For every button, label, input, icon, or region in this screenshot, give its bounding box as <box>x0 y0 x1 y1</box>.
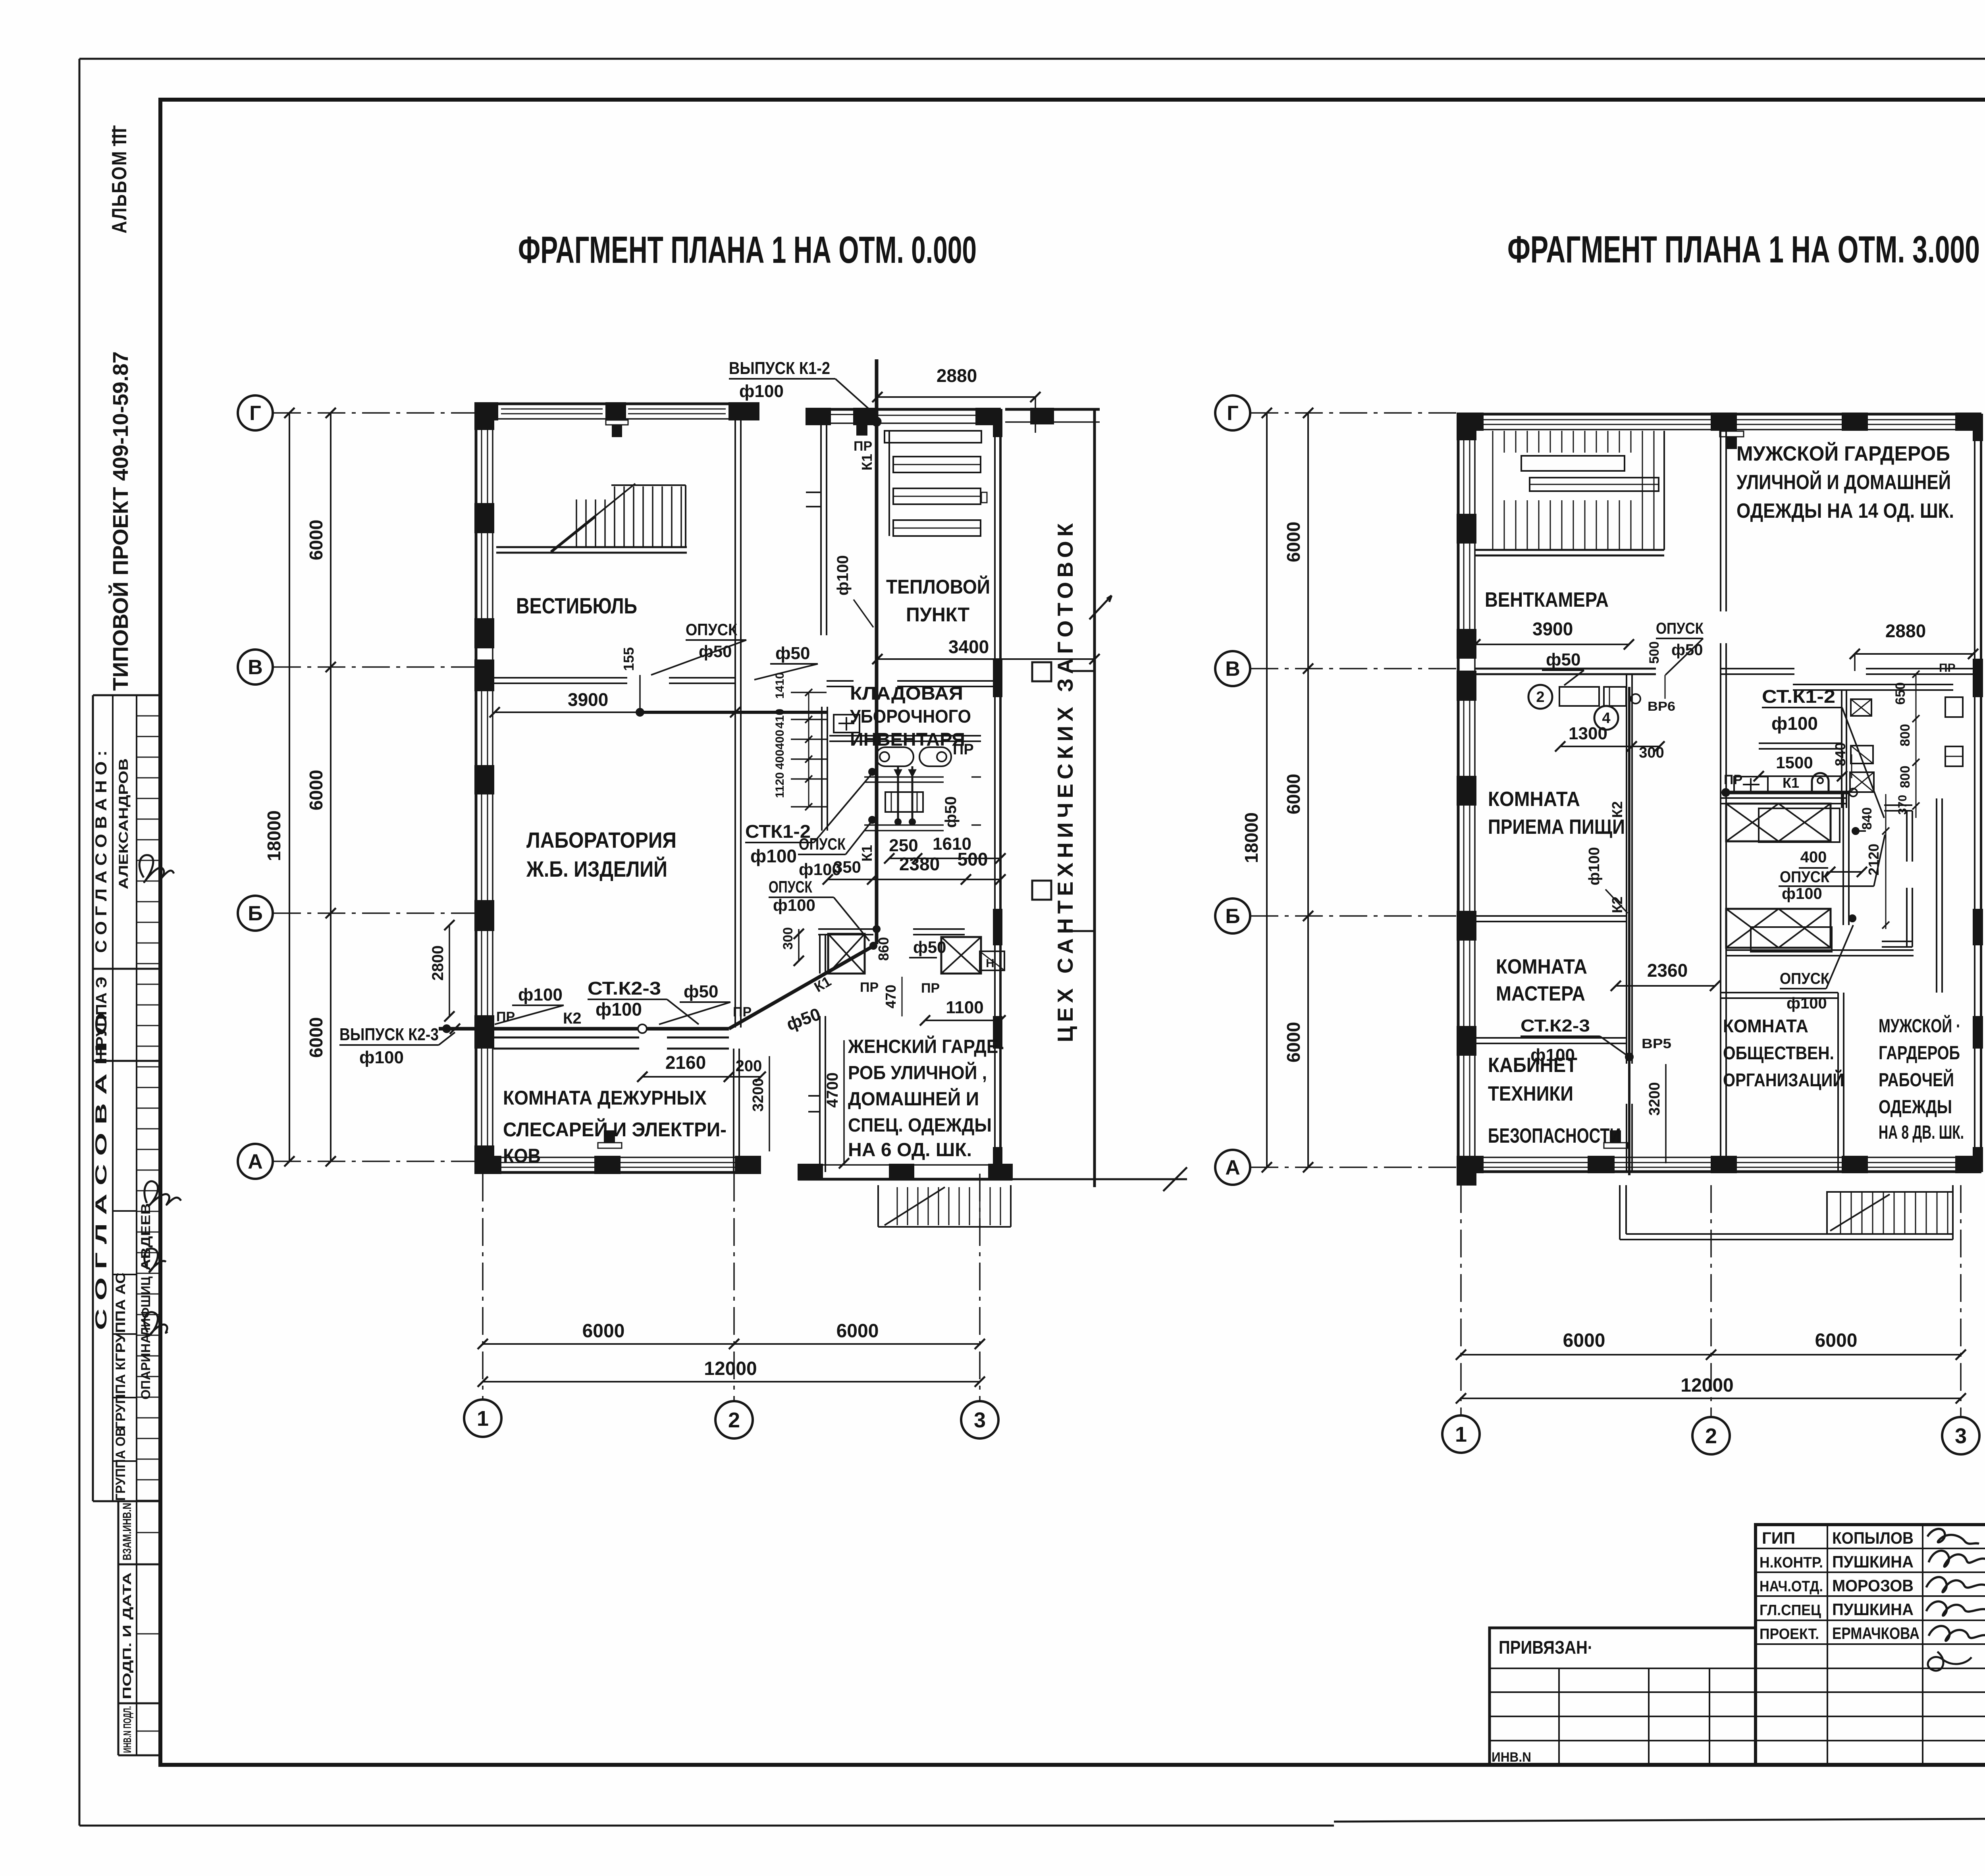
plan A dim 3400 <box>872 636 1100 664</box>
svg-text:СПЕЦ. ОДЕЖДЫ: СПЕЦ. ОДЕЖДЫ <box>848 1115 992 1136</box>
svg-text:Б: Б <box>1225 905 1240 928</box>
plan B Пр labels <box>1724 661 1956 787</box>
svg-text:ОДЕЖДЫ НА 14 ОД. ШК.: ОДЕЖДЫ НА 14 ОД. ШК. <box>1736 499 1954 523</box>
svg-text:ВЕНТКАМЕРА: ВЕНТКАМЕРА <box>1485 588 1609 611</box>
plan B dim 2880 <box>1850 621 1978 671</box>
plan B pipe К1 <box>1722 775 1866 925</box>
svg-text:2: 2 <box>728 1408 740 1432</box>
plan B wall axis В left <box>1475 669 1656 674</box>
svg-text:ПР: ПР <box>860 980 879 995</box>
title block signatures <box>1926 1529 1985 1671</box>
plan A label ф50 mid <box>659 982 730 1024</box>
svg-text:2880: 2880 <box>1885 621 1926 641</box>
plan A label СтК1-2 <box>745 769 875 866</box>
plan A bottom dim 12000 <box>478 1358 985 1387</box>
plan B label опуск ф100 a <box>1779 835 1885 902</box>
svg-text:ПР: ПР <box>953 741 974 758</box>
plan A Выпуск К2-3 label <box>339 1024 460 1067</box>
svg-text:ПР: ПР <box>1939 661 1956 675</box>
svg-text:СЛЕСАРЕЙ И ЭЛЕКТРИ-: СЛЕСАРЕЙ И ЭЛЕКТРИ- <box>503 1118 727 1141</box>
plan B axis circles Г В Б А <box>1215 395 1457 1185</box>
svg-text:С О Г Л А С О В А Н О :: С О Г Л А С О В А Н О : <box>93 750 110 953</box>
sidebar signature 1 <box>139 855 174 882</box>
plan B dim 3200 <box>1646 1064 1666 1163</box>
plan A dim 2800 <box>429 920 455 1022</box>
svg-text:2120: 2120 <box>1866 844 1882 875</box>
plan A dim 2160 200 <box>637 1052 766 1082</box>
plan B bottom dim 12000 <box>1456 1375 1966 1404</box>
plan A wall Комната дежурных top <box>493 1037 729 1049</box>
svg-text:ф100: ф100 <box>1586 847 1603 885</box>
plan A bottom axis circles 1 2 3 <box>464 1174 998 1438</box>
svg-text:КОМНАТА ДЕЖУРНЫХ: КОМНАТА ДЕЖУРНЫХ <box>503 1087 707 1109</box>
svg-text:3900: 3900 <box>568 689 608 710</box>
svg-text:6000: 6000 <box>582 1321 625 1342</box>
plan B room label Кабинет техники <box>1488 1054 1621 1147</box>
svg-text:ф100: ф100 <box>1782 885 1822 902</box>
svg-text:ИНВЕНТАРЯ: ИНВЕНТАРЯ <box>850 729 965 750</box>
svg-text:В: В <box>1225 657 1240 681</box>
plan A bottom wall right part <box>798 1164 1012 1180</box>
sidebar label Инв.N подл. <box>121 1706 133 1753</box>
plan A label ф100 left <box>495 985 564 1024</box>
svg-text:СТ.К1-2: СТ.К1-2 <box>1762 686 1835 707</box>
svg-text:Б: Б <box>248 902 262 925</box>
sidebar label Альбом III <box>108 125 131 233</box>
plan A dim 250 1610 <box>884 834 1006 864</box>
plan B dim 1500 840 <box>1754 742 1852 781</box>
plan A axis circles Г В Б А <box>238 395 475 1179</box>
svg-text:УБОРОЧНОГО: УБОРОЧНОГО <box>850 706 971 727</box>
svg-text:К2: К2 <box>1609 897 1625 913</box>
plan B room label Комната обществен <box>1723 1016 1844 1090</box>
left plan title <box>518 229 977 271</box>
svg-text:ФРАГМЕНТ ПЛАНА 1 НА ОТМ. 3: ФРАГМЕНТ ПЛАНА 1 НА ОТМ. 3.000 <box>1507 228 1980 271</box>
svg-text:МОРОЗОВ: МОРОЗОВ <box>1832 1576 1914 1595</box>
svg-text:Ж.Б. ИЗДЕЛИЙ: Ж.Б. ИЗДЕЛИЙ <box>526 856 667 881</box>
svg-text:840: 840 <box>1832 742 1848 766</box>
plan A exterior stair bottom <box>878 1185 1011 1227</box>
plan A Пр labels <box>496 439 974 1024</box>
svg-text:НА 8 ДВ. ШК.: НА 8 ДВ. ШК. <box>1879 1122 1964 1143</box>
plan B exterior stair and canopy <box>1620 1185 1953 1240</box>
plan A dim 4700 <box>824 1040 849 1168</box>
svg-text:840: 840 <box>1860 807 1875 830</box>
plan A pipe К2 main <box>439 1010 729 1033</box>
svg-text:Г: Г <box>249 402 261 425</box>
plan B room label Мужской гардероб 8 <box>1879 1015 1964 1143</box>
svg-text:155: 155 <box>621 647 637 671</box>
sidebar text Согласовано 1 <box>93 750 110 953</box>
sidebar label Подп. и дата <box>121 1572 134 1699</box>
svg-text:2160: 2160 <box>665 1052 706 1073</box>
svg-text:ПРОЕКТ.: ПРОЕКТ. <box>1760 1626 1819 1643</box>
svg-text:ТЕХНИКИ: ТЕХНИКИ <box>1488 1082 1573 1105</box>
plan A label Кладовая <box>850 683 971 750</box>
svg-text:ГЛ.СПЕЦ: ГЛ.СПЕЦ <box>1760 1602 1821 1619</box>
plan B dim 400 <box>1799 848 1867 877</box>
svg-text:3900: 3900 <box>1532 619 1573 639</box>
svg-text:410: 410 <box>773 709 786 729</box>
svg-text:НА 6 ОД. ШК.: НА 6 ОД. ШК. <box>848 1139 972 1161</box>
sidebar rows Группа АС/К/ОВ <box>113 1203 153 1501</box>
plan A workshop floor edge bottom <box>1012 1167 1187 1191</box>
plan B vertical dim line 6000s <box>1283 408 1313 1172</box>
plan B wall Комната обществен right <box>1721 993 1844 1172</box>
svg-text:3: 3 <box>974 1408 986 1432</box>
svg-text:ПР: ПР <box>921 981 940 996</box>
svg-text:ПР: ПР <box>733 1005 752 1020</box>
plan A partition Женский гардероб left <box>808 934 825 1172</box>
plan B exterior bottom wall <box>1457 1131 1981 1173</box>
svg-text:ГРУППА АС: ГРУППА АС <box>113 1273 128 1362</box>
svg-text:6000: 6000 <box>1563 1330 1605 1351</box>
svg-text:ф100: ф100 <box>773 896 815 914</box>
plan A К1 pipe segment axis B <box>636 709 827 716</box>
svg-text:К2: К2 <box>563 1010 582 1027</box>
svg-text:3400: 3400 <box>948 636 989 657</box>
sidebar text Александров <box>116 758 131 889</box>
plan A exterior top wall (Вестибюль) <box>475 403 759 437</box>
svg-text:ф100: ф100 <box>1786 995 1827 1012</box>
svg-text:А: А <box>1225 1156 1240 1179</box>
svg-text:ИНВ.N: ИНВ.N <box>1492 1750 1531 1765</box>
svg-text:2800: 2800 <box>429 945 447 981</box>
svg-text:ГАРДЕРОБ: ГАРДЕРОБ <box>1879 1043 1960 1064</box>
plan A label ф100 riser <box>834 555 873 627</box>
title block signature table grid <box>1756 1525 1985 1765</box>
svg-text:2360: 2360 <box>1647 960 1688 981</box>
svg-text:ВР6: ВР6 <box>1648 699 1675 713</box>
svg-text:ПУНКТ: ПУНКТ <box>906 603 969 626</box>
svg-text:6000: 6000 <box>836 1321 879 1342</box>
plan B exterior top wall <box>1457 413 1981 449</box>
svg-text:6000: 6000 <box>1283 774 1304 814</box>
plan A workshop label <box>1053 519 1077 1042</box>
svg-text:ЦЕХ САНТЕХНИЧЕСКИХ ЗАГОТОВОК: ЦЕХ САНТЕХНИЧЕСКИХ ЗАГОТОВОК <box>1053 519 1077 1042</box>
svg-text:АЛЕКСАНДРОВ: АЛЕКСАНДРОВ <box>116 758 131 889</box>
plan B dim 500 <box>1647 641 1665 699</box>
svg-text:6000: 6000 <box>306 1017 326 1058</box>
svg-text:А: А <box>248 1150 263 1173</box>
plan A bottom dim 6000+6000 <box>478 1321 985 1349</box>
svg-text:КОВ: КОВ <box>503 1145 541 1167</box>
svg-text:ГИП: ГИП <box>1762 1529 1795 1547</box>
plan A label Опуск ф100 a <box>798 823 871 879</box>
svg-text:ЛАБОРАТОРИЯ: ЛАБОРАТОРИЯ <box>526 827 676 852</box>
svg-text:ОРГАНИЗАЦИЙ: ОРГАНИЗАЦИЙ <box>1723 1070 1844 1090</box>
plan A dim 860 <box>875 937 892 961</box>
plan A room label Тепловой пункт <box>886 575 990 626</box>
svg-text:ф100: ф100 <box>595 999 642 1020</box>
svg-text:БЕЗОПАСНОСТИ: БЕЗОПАСНОСТИ <box>1488 1124 1621 1147</box>
svg-text:ВЫПУСК К2-3: ВЫПУСК К2-3 <box>339 1025 439 1044</box>
svg-text:370: 370 <box>1896 795 1909 815</box>
svg-text:860: 860 <box>875 937 892 961</box>
plan A top wall Тепловой пункт <box>806 408 1000 435</box>
svg-text:3: 3 <box>1955 1424 1967 1448</box>
plan B exterior left wall with windows <box>1457 413 1476 1185</box>
sidebar signatures 2 <box>145 1181 181 1335</box>
plan A label Ст.К2-3 <box>588 978 699 1024</box>
plan B vertical dim line 18000 <box>1241 408 1272 1172</box>
svg-text:ОПУСК: ОПУСК <box>1780 868 1830 886</box>
svg-text:18000: 18000 <box>1241 812 1262 863</box>
svg-text:2380: 2380 <box>899 854 940 874</box>
svg-text:2: 2 <box>1536 689 1544 706</box>
svg-text:КАБИНЕТ: КАБИНЕТ <box>1488 1054 1577 1077</box>
plan B wall В right part <box>1721 669 1981 674</box>
plan A exterior bottom wall <box>475 1131 761 1174</box>
svg-text:ф100: ф100 <box>834 555 852 596</box>
svg-text:2: 2 <box>1705 1424 1717 1448</box>
plan B right rooms partition <box>1721 431 1726 1172</box>
plan A workshop wall (Цех) right <box>1032 409 1112 1187</box>
svg-text:250: 250 <box>889 836 918 855</box>
svg-text:МАСТЕРА: МАСТЕРА <box>1496 982 1585 1005</box>
svg-text:1: 1 <box>1455 1423 1467 1446</box>
svg-text:6000: 6000 <box>306 770 326 810</box>
svg-text:1: 1 <box>477 1407 489 1431</box>
svg-text:3200: 3200 <box>750 1078 767 1112</box>
svg-text:400: 400 <box>1800 848 1827 866</box>
svg-text:ГРУППА ОВ: ГРУППА ОВ <box>113 1427 128 1501</box>
svg-text:К1: К1 <box>811 973 834 995</box>
plan A label ф50 shower <box>909 796 960 958</box>
plan B label ф50 <box>1542 650 1584 685</box>
plan A top wall right segment <box>1005 408 1100 424</box>
svg-text:ф100: ф100 <box>359 1048 404 1067</box>
plan A room label Лаборатория <box>526 827 676 881</box>
plan A exterior left wall with windows <box>475 403 494 1174</box>
svg-text:ПРИВЯЗАН∙: ПРИВЯЗАН∙ <box>1499 1637 1592 1658</box>
svg-text:К1: К1 <box>859 454 875 470</box>
sidebar text Согласовано 2 <box>93 1012 110 1330</box>
svg-text:ФРАГМЕНТ ПЛАНА 1 НА ОТМ. 0: ФРАГМЕНТ ПЛАНА 1 НА ОТМ. 0.000 <box>518 229 977 271</box>
svg-text:ф100: ф100 <box>739 382 784 401</box>
plan B fixtures <box>1734 697 1963 792</box>
svg-text:ОБЩЕСТВЕН.: ОБЩЕСТВЕН. <box>1723 1043 1834 1063</box>
plan A building right wall <box>993 409 1002 1179</box>
svg-text:650: 650 <box>1893 682 1908 705</box>
plan A room label Вестибюль <box>516 593 637 618</box>
plan A pipe К1 diagonal <box>729 944 877 1029</box>
plan A dim 1100 <box>920 998 1006 1026</box>
plan B dims 840 2120 <box>1860 794 1889 929</box>
svg-text:1100: 1100 <box>946 998 983 1017</box>
svg-text:Н.КОНТР.: Н.КОНТР. <box>1760 1554 1823 1571</box>
plan A wall Кладовая top <box>827 681 995 686</box>
svg-text:ОПАРИНА: ОПАРИНА <box>139 1334 153 1400</box>
svg-text:Г: Г <box>1227 402 1238 425</box>
svg-text:МУЖСКОЙ ГАРДЕРОБ: МУЖСКОЙ ГАРДЕРОБ <box>1736 442 1950 465</box>
svg-text:ДОМАШНЕЙ И: ДОМАШНЕЙ И <box>848 1088 979 1110</box>
plan A pipe К1 riser <box>859 359 881 944</box>
svg-text:В: В <box>248 656 263 679</box>
svg-text:КОМНАТА: КОМНАТА <box>1496 955 1587 978</box>
svg-text:1500: 1500 <box>1776 753 1813 772</box>
plan B label Ст.К2-3 <box>1521 1016 1671 1065</box>
svg-text:АЛЬБОМ III: АЛЬБОМ III <box>108 127 131 233</box>
plan A dim 300 <box>781 927 804 966</box>
svg-text:РАБОЧЕЙ: РАБОЧЕЙ <box>1879 1069 1954 1091</box>
plan A label Опуск ф100 b <box>769 877 880 949</box>
svg-text:6000: 6000 <box>1815 1330 1858 1351</box>
svg-text:ф100: ф100 <box>1771 713 1818 734</box>
svg-text:500: 500 <box>958 849 988 870</box>
plan A vertical dim line 6000s <box>306 408 336 1166</box>
svg-text:ПРИЕМА ПИЩИ: ПРИЕМА ПИЩИ <box>1488 816 1625 839</box>
svg-text:ф50: ф50 <box>684 982 718 1001</box>
title block text Привязан <box>1499 1637 1592 1658</box>
plan A sanitary core details <box>818 707 1004 974</box>
plan B wall Кабинет top <box>1475 1038 1627 1043</box>
svg-text:6000: 6000 <box>1283 1022 1304 1062</box>
plan B room label Венткамера <box>1485 588 1609 611</box>
plan A staircase <box>496 484 687 553</box>
plan B dim 3900 <box>1470 619 1634 650</box>
svg-text:ф50: ф50 <box>1546 650 1580 669</box>
plan A partition right of Комната дежурных <box>734 1049 739 1174</box>
plan B staircase <box>1475 431 1664 555</box>
plan A label ф50 right <box>784 1004 823 1034</box>
plan A wall axis В <box>493 678 735 683</box>
sidebar label Типовой проект <box>108 351 133 691</box>
svg-text:6000: 6000 <box>1283 522 1304 562</box>
svg-text:470: 470 <box>883 985 899 1008</box>
svg-text:ф50: ф50 <box>775 644 810 663</box>
svg-text:ф100: ф100 <box>518 985 563 1005</box>
plan B room label Комната мастера <box>1496 955 1587 1005</box>
plan A long central partition <box>735 419 741 1028</box>
plan B right dims 650 800 800 370 <box>1893 671 1919 818</box>
svg-text:ПУШКИНА: ПУШКИНА <box>1832 1600 1914 1619</box>
sidebar approvals table grid <box>93 695 160 1501</box>
plan B label ф100 <box>1586 847 1628 913</box>
svg-text:6000: 6000 <box>306 520 326 560</box>
plan B bottom dim 6000+6000 <box>1456 1330 1966 1360</box>
svg-text:12000: 12000 <box>1681 1375 1733 1396</box>
plan B dim 2360 <box>1611 960 1720 991</box>
svg-text:ЕРМАЧКОВА: ЕРМАЧКОВА <box>1832 1624 1919 1643</box>
svg-text:СТ.К2-3: СТ.К2-3 <box>1521 1016 1590 1035</box>
plan A level marks stack <box>773 672 827 810</box>
title block roles <box>1760 1529 1823 1643</box>
plan A heat unit in Тепловой пункт <box>885 431 987 536</box>
svg-text:ИНВ.N ПОДЛ.: ИНВ.N ПОДЛ. <box>121 1706 133 1753</box>
svg-text:4700: 4700 <box>824 1072 841 1108</box>
svg-text:КЛАДОВАЯ: КЛАДОВАЯ <box>850 683 963 704</box>
svg-text:500: 500 <box>1647 641 1662 664</box>
svg-text:ВЗАМ.ИНВ.N: ВЗАМ.ИНВ.N <box>121 1503 134 1560</box>
plan A vertical dim line 18000 <box>264 408 295 1166</box>
svg-text:ТЕПЛОВОЙ: ТЕПЛОВОЙ <box>886 575 990 598</box>
svg-text:ВЫПУСК К1-2: ВЫПУСК К1-2 <box>729 359 830 378</box>
svg-text:ГРУППА К: ГРУППА К <box>113 1362 128 1429</box>
plan B corridor partition <box>1627 674 1632 1172</box>
svg-text:ОПУСК: ОПУСК <box>686 620 737 639</box>
plan B building right wall <box>1973 414 1983 1172</box>
svg-text:ОПУСК: ОПУСК <box>799 835 846 853</box>
svg-text:МУЖСКОЙ ∙: МУЖСКОЙ ∙ <box>1879 1015 1960 1037</box>
plan A room label Женский гардероб <box>848 1035 1004 1161</box>
plan A room label Комната дежурных <box>503 1087 727 1167</box>
svg-text:3200: 3200 <box>1646 1082 1663 1116</box>
plan A dim 3200 <box>750 1056 769 1151</box>
plan B label опуск ф100 b <box>1780 925 1853 1012</box>
plan B wall axis Б <box>1475 916 1627 922</box>
svg-text:ЖЕНСКИЙ ГАРДЕ-: ЖЕНСКИЙ ГАРДЕ- <box>848 1035 1004 1057</box>
plan A Выпуск К1-2 label <box>729 359 873 413</box>
svg-text:ОПУСК: ОПУСК <box>1780 970 1830 987</box>
plan B showers <box>1726 804 1840 952</box>
svg-text:Н: Н <box>986 957 994 970</box>
svg-text:800: 800 <box>1898 724 1913 746</box>
plan A partition Вестибюль/Тепловой <box>806 423 827 635</box>
title block names <box>1832 1529 1919 1643</box>
svg-text:2880: 2880 <box>937 365 977 386</box>
plan B label Ст.К1-2 <box>1762 686 1884 818</box>
title block text Инв.N <box>1492 1750 1531 1765</box>
svg-text:НАЧ.ОТД.: НАЧ.ОТД. <box>1760 1578 1823 1595</box>
svg-text:АВДЕЕВ: АВДЕЕВ <box>139 1203 153 1271</box>
plan A dim 470 b <box>883 977 902 1016</box>
svg-text:УЛИЧНОЙ И ДОМАШНЕЙ: УЛИЧНОЙ И ДОМАШНЕЙ <box>1736 470 1951 494</box>
svg-text:С О Г Л А С О В А Н О: С О Г Л А С О В А Н О <box>93 1012 110 1330</box>
svg-text:ОПУСК: ОПУСК <box>1656 620 1704 637</box>
plan B pipe К2 corridor <box>1609 687 1629 1175</box>
svg-text:КОМНАТА: КОМНАТА <box>1488 788 1580 811</box>
svg-text:ПР: ПР <box>854 439 872 454</box>
svg-text:300: 300 <box>1639 744 1664 761</box>
svg-text:ф100: ф100 <box>750 846 797 866</box>
plan B label опуск ф50 <box>1656 620 1704 675</box>
right plan title <box>1507 228 1980 271</box>
sidebar label Взам.инв.N <box>121 1503 134 1560</box>
plan A dim 155 <box>621 647 640 711</box>
plan A dim 2880 top <box>872 365 1041 433</box>
svg-text:РОБ УЛИЧНОЙ ,: РОБ УЛИЧНОЙ , <box>848 1062 987 1084</box>
svg-text:ПР: ПР <box>1724 772 1742 787</box>
svg-text:ВЕСТИБЮЛЬ: ВЕСТИБЮЛЬ <box>516 593 637 618</box>
plan B equipment 2 and 4 <box>1528 685 1675 730</box>
plan B dim 1300 300 <box>1555 724 1665 761</box>
svg-text:ОДЕЖДЫ: ОДЕЖДЫ <box>1879 1097 1952 1118</box>
svg-text:18000: 18000 <box>264 810 284 861</box>
title block Привязан table <box>1490 1628 1756 1765</box>
plan A label ф50 2 <box>754 644 818 680</box>
svg-text:1410: 1410 <box>773 672 786 699</box>
svg-text:ПОДП. И ДАТА: ПОДП. И ДАТА <box>121 1572 134 1699</box>
svg-text:350: 350 <box>833 858 861 876</box>
plan A dim 350 2380 500 <box>823 849 1006 885</box>
svg-text:ПУШКИНА: ПУШКИНА <box>1832 1552 1914 1571</box>
plan A label Опуск ф50 <box>651 620 746 675</box>
svg-text:СТ.К2-3: СТ.К2-3 <box>588 978 661 999</box>
plan B bottom axis circles 1 2 3 <box>1442 1185 1979 1454</box>
svg-text:ф50: ф50 <box>913 938 946 956</box>
plan B room label Комната приема пищи <box>1488 788 1625 839</box>
plan B sanitary walls <box>1721 684 1953 993</box>
svg-text:400: 400 <box>773 750 786 769</box>
svg-text:КОПЫЛОВ: КОПЫЛОВ <box>1832 1529 1914 1547</box>
svg-text:К1: К1 <box>859 845 875 862</box>
plan B room label Мужской гардероб 14 <box>1736 442 1954 523</box>
svg-text:ТИПОВОЙ ПРОЕКТ 409-10-59.87: ТИПОВОЙ ПРОЕКТ 409-10-59.87 <box>108 351 133 691</box>
sidebar stamp margin grid <box>118 1501 160 1755</box>
svg-text:400: 400 <box>773 730 786 750</box>
svg-text:800: 800 <box>1898 765 1913 788</box>
